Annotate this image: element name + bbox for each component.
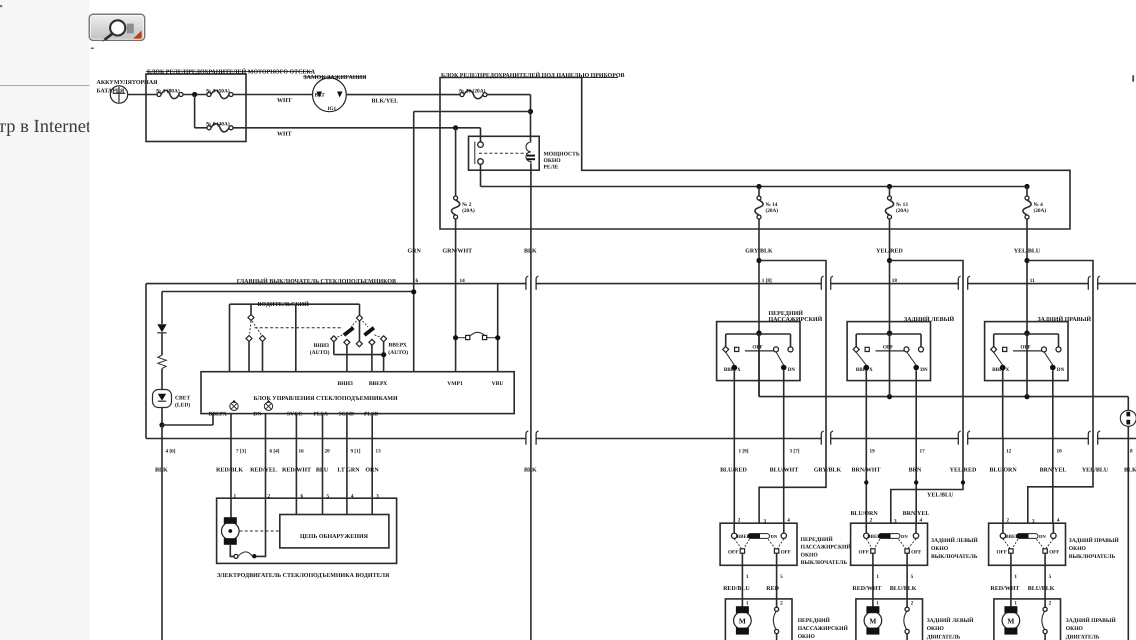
rear left UP wire down xyxy=(865,370,867,438)
svg-text:1: 1 xyxy=(746,574,749,580)
driver auto up-right contact xyxy=(381,336,387,342)
wire resistor to LED xyxy=(161,369,163,390)
svg-text:VBU: VBU xyxy=(492,381,504,387)
rear left door switch output 1 xyxy=(872,553,874,599)
svg-text:ПАССАЖИРСКИЙ: ПАССАЖИРСКИЙ xyxy=(801,544,852,551)
svg-text:YEL/RED: YEL/RED xyxy=(876,248,903,254)
front passenger DN wire down xyxy=(783,370,785,438)
rear right contact square xyxy=(1003,347,1007,351)
wire GRY/BLK from fuse to master switch xyxy=(758,219,760,333)
driver auto down-left contact xyxy=(331,336,337,342)
svg-text:М: М xyxy=(1007,617,1014,626)
wire ORN driver xyxy=(371,414,373,515)
connector node BRN/WHT xyxy=(864,480,868,484)
svg-text:BLU/BLK: BLU/BLK xyxy=(890,586,917,592)
rear right lever up xyxy=(994,352,1003,365)
wire BLK master switch ground xyxy=(161,425,163,640)
wire RED/YEL driver xyxy=(265,414,267,500)
relay dashed link xyxy=(479,152,527,154)
rear right switch module box xyxy=(985,322,1068,381)
wire GRN vertical to master switch xyxy=(413,112,415,372)
wire RED/WHT driver xyxy=(295,414,297,515)
svg-text:PLSA: PLSA xyxy=(314,411,328,417)
rear left switch module box xyxy=(847,322,930,381)
svg-text:1 [9]: 1 [9] xyxy=(739,448,749,454)
rear left door switch dashed levers xyxy=(866,539,872,549)
svg-text:DN: DN xyxy=(253,411,261,417)
svg-text:1: 1 xyxy=(876,574,879,580)
svg-text:DN: DN xyxy=(901,534,908,539)
svg-text:BLK: BLK xyxy=(155,467,168,473)
svg-text:ОКНО: ОКНО xyxy=(544,158,562,164)
driver motor M1 xyxy=(222,522,240,540)
svg-text:DN: DN xyxy=(1057,367,1065,373)
svg-text:LT GRN: LT GRN xyxy=(337,467,360,473)
svg-text:4: 4 xyxy=(787,518,790,524)
rear left window motor xyxy=(872,599,874,607)
window lock switch node left xyxy=(453,335,458,340)
svg-text:СВЕТ: СВЕТ xyxy=(175,396,191,402)
wire BLK from relay coil to bottom xyxy=(530,164,532,640)
fuse No.1 80A xyxy=(157,93,161,97)
wire BLU/RED to passenger door switch xyxy=(733,439,735,524)
svg-text:BLK: BLK xyxy=(524,248,537,254)
fuse No.6 40A xyxy=(207,126,211,130)
wire LT GRN driver xyxy=(346,414,348,515)
rear right door switch box xyxy=(989,523,1066,565)
svg-text:OFF: OFF xyxy=(1020,345,1030,351)
wire relay output rail to window fuses xyxy=(480,164,482,186)
front passenger feed node xyxy=(756,331,762,337)
svg-text:АККУМУЛЯТОРНАЯ: АККУМУЛЯТОРНАЯ xyxy=(97,80,159,86)
wire YEL/RED from fuse to master switch xyxy=(889,219,891,333)
svg-text:ВВЕРХ: ВВЕРХ xyxy=(209,411,227,417)
svg-text:(20А): (20А) xyxy=(462,208,475,214)
rear left contact diamond xyxy=(853,346,859,352)
svg-text:№ 6 (40А): № 6 (40А) xyxy=(206,122,230,128)
rear right DN wire down xyxy=(1052,370,1054,438)
ignition switch xyxy=(313,78,347,112)
svg-text:4: 4 xyxy=(1057,518,1060,524)
svg-text:ВЫКЛЮЧАТЕЛЬ: ВЫКЛЮЧАТЕЛЬ xyxy=(801,560,848,566)
svg-text:GRN: GRN xyxy=(408,248,422,254)
svg-text:2: 2 xyxy=(1006,518,1009,524)
rear right center wire xyxy=(1026,333,1028,396)
rear right window motor xyxy=(1010,599,1012,607)
connector symbol master ground xyxy=(1120,410,1136,426)
fuse No.3 50A xyxy=(207,93,211,97)
svg-text:ВЫКЛЮЧАТЕЛЬ: ВЫКЛЮЧАТЕЛЬ xyxy=(931,554,978,560)
svg-text:14: 14 xyxy=(460,278,466,284)
wire battery to engine fuse box xyxy=(128,94,157,96)
wire lock right to VBU xyxy=(497,340,499,372)
svg-text:ВВЕРХ: ВВЕРХ xyxy=(389,342,407,348)
front passenger door switch output 1 xyxy=(741,553,743,599)
zoom button lens xyxy=(114,23,125,34)
fuse № 4 20A xyxy=(1024,184,1029,189)
rear left lever up xyxy=(856,352,866,365)
wire BRN to rear-left door xyxy=(915,439,917,524)
svg-text:DN: DN xyxy=(1039,534,1046,539)
svg-text:МОЩНОСТЬ: МОЩНОСТЬ xyxy=(544,152,580,158)
front passenger DN contact node xyxy=(781,365,787,371)
connector node YEL/RED xyxy=(961,480,965,484)
svg-text:БЛОК УПРАВЛЕНИЯ СТЕКЛОПОДЪЕМНИ: БЛОК УПРАВЛЕНИЯ СТЕКЛОПОДЪЕМНИКАМИ xyxy=(254,396,398,402)
svg-text:ОКНО: ОКНО xyxy=(801,552,819,558)
wire BLK pin8 to bottom xyxy=(1127,426,1129,640)
zoom button xyxy=(89,14,145,40)
rear left door switch box xyxy=(851,523,928,565)
branch node YEL/BLU xyxy=(1024,258,1029,263)
wire node to control unit BBEPX pin xyxy=(162,424,213,426)
svg-text:3: 3 xyxy=(376,493,379,499)
svg-text:4 [6]: 4 [6] xyxy=(166,448,176,454)
front passenger contact diamond xyxy=(723,346,729,352)
svg-text:ЗАДНИЙ ЛЕВЫЙ: ЗАДНИЙ ЛЕВЫЙ xyxy=(927,617,974,624)
svg-text:RED/YEL: RED/YEL xyxy=(250,467,277,473)
browser sidebar background xyxy=(0,0,90,640)
zoom button red corner triangle xyxy=(133,31,141,39)
svg-text:OFF: OFF xyxy=(859,550,869,556)
rear right UP contact node xyxy=(1000,365,1006,371)
rear left door switch output 5 xyxy=(906,553,908,599)
wire rail to connector xyxy=(1127,397,1129,411)
branch node YEL/RED xyxy=(887,258,892,263)
junction node in engine box xyxy=(192,92,197,97)
front passenger window motor box xyxy=(725,599,792,640)
front passenger door switch box xyxy=(720,523,797,565)
svg-text:ЗАДНИЙ ЛЕВЫЙ: ЗАДНИЙ ЛЕВЫЙ xyxy=(904,315,954,323)
svg-text:RED: RED xyxy=(766,586,779,592)
wire lock to VMP1 xyxy=(455,340,457,372)
rear right door switch OFF contacts xyxy=(1009,549,1013,553)
svg-text:ВНИЗ: ВНИЗ xyxy=(314,343,329,349)
wire YEL/BLU from fuse to master switch xyxy=(1026,219,1028,333)
window control unit box xyxy=(201,372,514,414)
driver auto cluster feed xyxy=(359,304,361,315)
svg-text:OFF: OFF xyxy=(911,550,921,556)
svg-text:OFF: OFF xyxy=(997,550,1007,556)
driver contact lower-left xyxy=(246,336,252,342)
rear left DN contact node xyxy=(913,365,919,371)
svg-text:GRN/WHT: GRN/WHT xyxy=(443,248,473,254)
rear left door switch rocker bar xyxy=(879,534,901,539)
front passenger door switch rocker bar xyxy=(748,534,770,539)
svg-text:1 [8]: 1 [8] xyxy=(762,278,772,284)
rear right top rail xyxy=(994,333,1059,335)
driver contact lower-right xyxy=(260,336,266,342)
relay contact feed wire xyxy=(480,128,482,142)
connector symbol 2 xyxy=(264,402,272,410)
driver motor breaker arc xyxy=(238,552,252,556)
svg-text:ОКНО: ОКНО xyxy=(1066,626,1084,632)
svg-text:13: 13 xyxy=(376,448,382,454)
relay contact terminals xyxy=(478,142,484,148)
master switch box top edge xyxy=(146,283,526,285)
driver switch middle wire xyxy=(295,304,297,372)
svg-text:ПЕРЕДНИЙ: ПЕРЕДНИЙ xyxy=(801,536,834,543)
svg-text:ВВЕРХ: ВВЕРХ xyxy=(992,367,1009,373)
svg-text:OFF: OFF xyxy=(1049,550,1059,556)
svg-text:10: 10 xyxy=(1057,448,1063,454)
front passenger top rail xyxy=(726,333,791,335)
svg-text:3 [7]: 3 [7] xyxy=(790,448,800,454)
front passenger door switch dashed levers xyxy=(734,539,741,549)
svg-text:ВВЕРХ: ВВЕРХ xyxy=(369,381,387,387)
rear right feed node xyxy=(1024,331,1030,337)
svg-text:ЗАМОК ЗАЖИГАНИЯ: ЗАМОК ЗАЖИГАНИЯ xyxy=(304,75,368,81)
svg-text:6: 6 xyxy=(301,493,304,499)
svg-text:1: 1 xyxy=(1014,601,1017,607)
svg-text:ORN: ORN xyxy=(365,467,379,473)
rear right UP wire down xyxy=(1002,370,1004,438)
svg-text:PLSB: PLSB xyxy=(364,411,378,417)
svg-text:BRN/YEL: BRN/YEL xyxy=(903,511,930,517)
driver dashed linkages left xyxy=(250,321,252,335)
driver motor lower path xyxy=(230,545,234,557)
diode xyxy=(157,324,166,332)
master window switch box left edge xyxy=(145,284,147,439)
driver auto center contact xyxy=(356,341,362,347)
svg-text:ВВЕРХ: ВВЕРХ xyxy=(724,367,741,373)
wire ignition to fuse21 BLK/YEL xyxy=(346,94,460,96)
zoom button lens handle xyxy=(105,34,113,40)
junction node GRN inner xyxy=(411,289,416,294)
svg-text:DN: DN xyxy=(771,534,778,539)
branch wire GRY/BLK to door switch xyxy=(759,261,826,524)
engine compartment fuse/relay box xyxy=(146,74,246,142)
svg-text:19: 19 xyxy=(870,448,876,454)
svg-text:ОКНО: ОКНО xyxy=(927,626,945,632)
svg-text:RED/WHT: RED/WHT xyxy=(282,467,311,473)
driver switch contact branch xyxy=(250,304,252,314)
svg-text:ОКНО: ОКНО xyxy=(798,634,816,640)
svg-text:YEL/BLU: YEL/BLU xyxy=(1014,248,1041,254)
top-left edge mark xyxy=(0,5,2,7)
svg-text:3: 3 xyxy=(894,519,897,525)
wire top edge to lock right xyxy=(497,284,499,336)
rear right motor breaker xyxy=(1044,599,1046,607)
junction node BLK master xyxy=(159,422,164,427)
front passenger window motor xyxy=(741,599,743,607)
svg-text:2: 2 xyxy=(268,493,271,499)
svg-text:(AUTO): (AUTO) xyxy=(310,350,330,356)
svg-text:9 [1]: 9 [1] xyxy=(351,448,361,454)
front passenger door switch contact left xyxy=(733,523,735,533)
svg-text:WHT: WHT xyxy=(277,131,292,137)
svg-text:YEL/BLU: YEL/BLU xyxy=(1082,467,1109,473)
dash below zoom button xyxy=(91,48,94,50)
rear left contact circles xyxy=(904,347,909,352)
connector node BRN xyxy=(914,480,918,484)
relay coil xyxy=(526,141,531,164)
fuse № 14 20A xyxy=(756,184,761,189)
junction node rear-right rail xyxy=(1024,394,1029,399)
front passenger motor breaker xyxy=(776,599,778,607)
svg-text:RED/BLU: RED/BLU xyxy=(723,586,750,592)
svg-text:DN: DN xyxy=(788,367,796,373)
front passenger contact circles xyxy=(774,347,779,352)
svg-text:ДВИГАТЕЛЬ: ДВИГАТЕЛЬ xyxy=(1066,635,1100,640)
svg-text:20: 20 xyxy=(325,448,331,454)
svg-text:ГЛАВНЫЙ ВЫКЛЮЧАТЕЛЬ СТЕКЛОПОДЪ: ГЛАВНЫЙ ВЫКЛЮЧАТЕЛЬ СТЕКЛОПОДЪЕМНИКОВ xyxy=(237,277,396,285)
battery BAT xyxy=(110,86,127,103)
svg-text:BLK: BLK xyxy=(524,467,537,473)
rear left DN wire down xyxy=(915,370,917,438)
driver auto link rail xyxy=(334,354,384,356)
rear right window motor box xyxy=(994,599,1061,640)
svg-text:1: 1 xyxy=(234,493,237,499)
front passenger lever up xyxy=(726,352,735,365)
rear right door switch dashed levers xyxy=(1003,539,1010,549)
svg-text:RED/BLK: RED/BLK xyxy=(216,467,243,473)
driver switch top wire xyxy=(230,303,360,305)
rear right lever down xyxy=(1044,352,1053,366)
rear left motor breaker xyxy=(906,599,908,607)
wire coil junction to GRN drop xyxy=(414,111,531,113)
svg-text:(20А): (20А) xyxy=(766,208,779,214)
rear right contact diamond xyxy=(991,346,997,352)
rear left lever down xyxy=(907,352,917,366)
front passenger switch module box xyxy=(717,322,800,381)
master switch box bottom edge xyxy=(146,438,526,440)
front passenger OFF bar xyxy=(745,350,774,352)
junction node coil feed xyxy=(528,109,533,114)
rear right door switch output 1 xyxy=(1010,553,1012,599)
wire GRN/WHT vertical to master switch xyxy=(455,219,457,338)
rear left feed node xyxy=(887,331,893,337)
branch node GRY/BLK xyxy=(756,258,761,263)
svg-text:№ 21 (20А): № 21 (20А) xyxy=(459,88,486,94)
svg-text:ЗАДНИЙ ПРАВЫЙ: ЗАДНИЙ ПРАВЫЙ xyxy=(1066,617,1117,624)
driver auto mid-left contact xyxy=(344,339,350,345)
svg-text:4: 4 xyxy=(351,493,354,499)
svg-text:VMP1: VMP1 xyxy=(447,381,463,387)
svg-text:5: 5 xyxy=(327,493,330,499)
svg-text:3: 3 xyxy=(764,519,767,525)
driver motor dashed link to detection xyxy=(240,530,280,532)
svg-text:1: 1 xyxy=(746,601,749,607)
svg-text:ПАССАЖИРСКИЙ: ПАССАЖИРСКИЙ xyxy=(769,315,823,323)
wire WHT to ignition switch xyxy=(233,94,313,96)
svg-text:(AUTO): (AUTO) xyxy=(388,350,408,356)
wire WHT lower run to relay contact xyxy=(233,127,481,129)
svg-text:8: 8 xyxy=(1130,448,1133,454)
front passenger UP wire down xyxy=(733,370,735,438)
svg-text:ВВЕРХ: ВВЕРХ xyxy=(856,367,873,373)
svg-text:BLU/ORN: BLU/ORN xyxy=(850,511,878,517)
driver auto contact bar up xyxy=(363,326,375,336)
connector symbol 1 xyxy=(230,402,238,410)
under-dash box label xyxy=(582,77,618,79)
svg-text:GRY/BLK: GRY/BLK xyxy=(745,248,773,254)
driver switch left leg xyxy=(229,304,231,372)
relay armature xyxy=(474,142,476,165)
svg-text:6 [4]: 6 [4] xyxy=(270,448,280,454)
svg-text:РЕЛЕ: РЕЛЕ xyxy=(544,165,559,171)
svg-text:ПЕРЕДНИЙ: ПЕРЕДНИЙ xyxy=(798,617,831,624)
svg-text:OFF: OFF xyxy=(781,550,791,556)
svg-text:3: 3 xyxy=(1032,519,1035,525)
svg-text:YEL/BLU: YEL/BLU xyxy=(927,492,954,498)
rear left door switch OFF contacts xyxy=(871,549,875,553)
svg-text:18: 18 xyxy=(892,278,898,284)
svg-text:2: 2 xyxy=(870,518,873,524)
svg-text:ВОДИТЕЛЬСКИЙ: ВОДИТЕЛЬСКИЙ xyxy=(258,300,310,308)
front passenger lever down xyxy=(776,352,784,366)
svg-text:RED/WHT: RED/WHT xyxy=(990,586,1019,592)
svg-text:BLU/BLK: BLU/BLK xyxy=(1028,586,1055,592)
svg-text:БАТАРЕЯ: БАТАРЕЯ xyxy=(97,89,125,95)
branch wire YEL/BLU to rear-right door xyxy=(1027,261,1093,524)
fuse No.2 20A xyxy=(453,125,458,130)
svg-text:ЭЛЕКТРОДВИГАТЕЛЬ СТЕКЛОПОДЪЕМН: ЭЛЕКТРОДВИГАТЕЛЬ СТЕКЛОПОДЪЕМНИКА ВОДИТЕ… xyxy=(217,573,390,579)
driver auto contact bar down xyxy=(343,326,355,336)
window lock switch node right xyxy=(495,335,500,340)
svg-text:SVCC: SVCC xyxy=(287,411,302,417)
svg-text:5: 5 xyxy=(911,574,914,580)
svg-text:IG1: IG1 xyxy=(328,106,337,112)
svg-text:М: М xyxy=(869,617,876,626)
svg-text:16: 16 xyxy=(299,448,305,454)
svg-text:2: 2 xyxy=(911,601,914,607)
inner feed rail to LED chain xyxy=(162,291,414,293)
front passenger door switch contact right xyxy=(783,523,785,533)
wire BLU/ORN rear-right xyxy=(1002,439,1004,524)
svg-text:BRN: BRN xyxy=(909,467,922,473)
front passenger door switch output 5 xyxy=(776,553,778,599)
svg-text:ЗАДНИЙ ЛЕВЫЙ: ЗАДНИЙ ЛЕВЫЙ xyxy=(931,537,978,544)
junction node auto-up xyxy=(381,352,386,357)
front passenger contact square xyxy=(735,347,739,351)
wire fuse1 to junction xyxy=(183,94,207,96)
power window relay xyxy=(469,136,540,170)
svg-text:1: 1 xyxy=(876,601,879,607)
fuse № 13 20A xyxy=(887,184,892,189)
junction node rear-left rail xyxy=(887,394,892,399)
sidebar divider line xyxy=(0,85,90,87)
zoom button document square xyxy=(127,24,134,34)
svg-text:БЛОК РЕЛЕ/ПРЕДОХРАНИТЕЛЕЙ МОТО: БЛОК РЕЛЕ/ПРЕДОХРАНИТЕЛЕЙ МОТОРНОГО ОТСЕ… xyxy=(147,67,316,75)
wire BRN/WHT to rear-left door xyxy=(865,439,867,524)
svg-text:ОКНО: ОКНО xyxy=(1069,546,1087,552)
driver window motor box xyxy=(217,498,397,563)
rear right door switch contact right xyxy=(1052,523,1054,533)
wire LED to BLK node xyxy=(161,408,163,426)
svg-text:(LED): (LED) xyxy=(175,403,190,409)
svg-text:2: 2 xyxy=(1049,601,1052,607)
svg-text:ЦЕПЬ ОБНАРУЖЕНИЯ: ЦЕПЬ ОБНАРУЖЕНИЯ xyxy=(300,534,369,540)
svg-text:ЗАДНИЙ ПРАВЫЙ: ЗАДНИЙ ПРАВЫЙ xyxy=(1038,315,1092,323)
svg-text:BLU/WHT: BLU/WHT xyxy=(770,467,799,473)
svg-text:БЛОК РЕЛЕ/ПРЕДОХРАНИТЕЛЕЙ ПОД: БЛОК РЕЛЕ/ПРЕДОХРАНИТЕЛЕЙ ПОД ПАНЕЛЬЮ ПР… xyxy=(441,71,625,79)
svg-text:6: 6 xyxy=(416,278,419,284)
svg-text:WHT: WHT xyxy=(277,98,292,104)
rear right OFF bar xyxy=(1013,350,1042,352)
svg-text:ВНИЗ: ВНИЗ xyxy=(338,381,353,387)
rear right door switch contact left xyxy=(1002,523,1004,533)
svg-text:4: 4 xyxy=(920,518,923,524)
svg-text:OFF: OFF xyxy=(752,345,762,351)
svg-text:BLK: BLK xyxy=(1124,467,1136,473)
svg-text:BLU/RED: BLU/RED xyxy=(720,467,747,473)
wire fuse21 to relay coil corner xyxy=(487,94,531,96)
rear left OFF bar xyxy=(876,350,905,352)
svg-text:OFF: OFF xyxy=(728,550,738,556)
svg-text:5: 5 xyxy=(1049,574,1052,580)
rear left top rail xyxy=(856,333,921,335)
rear left window motor box xyxy=(856,599,923,640)
